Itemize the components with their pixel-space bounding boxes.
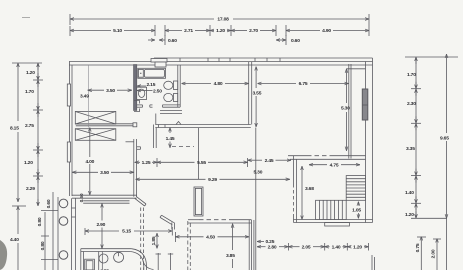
svg-text:5.10: 5.10: [113, 28, 122, 34]
svg-text:2.90: 2.90: [96, 222, 105, 228]
svg-text:1.70: 1.70: [25, 89, 34, 95]
dashed opening hall: [172, 146, 194, 148]
wall corridor top pair: [154, 114, 251, 149]
svg-text:5.30: 5.30: [254, 170, 263, 176]
wall top: [69, 58, 373, 65]
wall stub bottom right: [371, 255, 373, 270]
svg-text:2.80: 2.80: [268, 244, 277, 250]
stair flight vertical: [346, 176, 365, 201]
diagonal stub B: [160, 215, 175, 229]
ext line x88: [88, 65, 90, 128]
svg-text:8.15: 8.15: [10, 126, 19, 132]
dim 9.65 outer: [440, 54, 449, 270]
partition line bath2: [98, 252, 100, 270]
dim 6.75: [258, 81, 349, 87]
dim 1.85 rotated: [151, 233, 157, 249]
dim 5.55: [157, 158, 248, 167]
dim 3.50 upper: [80, 88, 132, 100]
svg-text:1.25: 1.25: [142, 160, 151, 166]
pillar box: [194, 187, 203, 216]
dim 5.10: [70, 25, 155, 36]
svg-text:9.65: 9.65: [440, 136, 449, 142]
dim 2.00: [431, 239, 442, 270]
toilet: [164, 81, 178, 90]
svg-text:0.25: 0.25: [266, 239, 275, 245]
window left 1: [67, 84, 70, 106]
wall porch left line: [57, 197, 59, 270]
stair flight horizontal: [316, 200, 347, 219]
dim 5.15: [85, 227, 172, 236]
svg-text:2.71: 2.71: [184, 28, 193, 34]
xbox 2: [75, 129, 116, 141]
column 1: [59, 199, 68, 208]
wall stair room left: [294, 156, 297, 223]
wall hall left pair: [126, 139, 141, 197]
svg-text:3.50: 3.50: [100, 170, 109, 176]
svg-text:0.80: 0.80: [37, 217, 43, 226]
door jamb bracket lower: [134, 109, 140, 112]
svg-text:3.35: 3.35: [406, 146, 415, 152]
svg-text:2.29: 2.29: [26, 186, 35, 192]
svg-text:3.55: 3.55: [253, 91, 262, 97]
svg-text:4.80: 4.80: [214, 81, 223, 87]
dim porch small chain: [37, 192, 85, 270]
dim 1.25: [135, 158, 157, 167]
top left dash: [22, 17, 30, 19]
window marker top wall bath: [151, 59, 167, 68]
dim 9.29 + 5.30 label: [136, 170, 290, 184]
svg-text:2.75: 2.75: [25, 123, 34, 129]
dim 3.50 lower: [72, 170, 134, 176]
svg-text:2.15: 2.15: [147, 82, 156, 88]
dim 8.15 / 4.40 outer: [10, 63, 42, 270]
diagonal stub A: [135, 196, 146, 206]
svg-text:2.05: 2.05: [302, 244, 311, 250]
window left 2: [67, 142, 70, 162]
dim 1.45: [166, 128, 175, 148]
svg-text:5.15: 5.15: [122, 229, 131, 235]
bidet: [164, 93, 178, 101]
svg-text:3.68: 3.68: [305, 186, 314, 192]
svg-text:4.50: 4.50: [206, 235, 215, 241]
dim 4.75: [309, 162, 360, 168]
dim 2.45: [248, 158, 291, 164]
wall bathroom bottom: [137, 105, 182, 114]
dim 4.90: [286, 25, 369, 36]
sink: [137, 87, 147, 99]
corridor wall joints: [158, 125, 160, 128]
dim 1.20: [210, 25, 231, 36]
dim 2.15: [137, 82, 156, 88]
column 2: [59, 217, 68, 226]
column 3: [59, 251, 68, 260]
dim 2.50: [137, 88, 162, 94]
svg-text:0.75: 0.75: [415, 243, 421, 252]
svg-text:5.55: 5.55: [197, 160, 206, 166]
dim 0.75: [415, 237, 426, 270]
dim bottom row 2.80 2.05 1.40 1.20: [257, 243, 369, 251]
svg-text:1.05: 1.05: [352, 208, 361, 214]
wall bathroom right: [178, 65, 180, 107]
svg-text:9.29: 9.29: [208, 177, 217, 183]
door dashed x142: [141, 208, 144, 270]
svg-text:2.70: 2.70: [249, 28, 258, 34]
tick marks bottom mid: [156, 253, 174, 270]
dim 2.71: [165, 25, 210, 36]
svg-text:1.20: 1.20: [353, 244, 362, 250]
svg-text:0.80: 0.80: [40, 241, 46, 250]
dim 1.05: [352, 202, 361, 219]
wall left room bottom: [72, 195, 137, 198]
wall lower room top: [83, 201, 129, 203]
wall mid vertical long x255: [249, 62, 256, 270]
svg-text:1.20: 1.20: [26, 70, 35, 76]
svg-text:0.60: 0.60: [168, 38, 177, 44]
beam bar: [76, 123, 137, 127]
dim 4.50: [175, 232, 249, 242]
door peak mark corridor wall: [176, 122, 181, 125]
svg-text:1.20: 1.20: [216, 28, 225, 34]
svg-text:1.45: 1.45: [166, 136, 175, 142]
dim 0.60 a: [148, 35, 177, 45]
dim 17.08: [70, 14, 369, 25]
dim 0.25: [257, 239, 275, 245]
shower box: [85, 259, 95, 270]
dim 0.60 b: [276, 35, 300, 45]
svg-text:2.30: 2.30: [407, 101, 416, 107]
wall right outer: [366, 58, 373, 223]
svg-text:4.90: 4.90: [322, 28, 331, 34]
wall bath2 top + curve: [81, 249, 147, 270]
wc2 bowl: [99, 254, 108, 263]
xbox 1: [75, 112, 116, 125]
svg-text:4.00: 4.00: [85, 159, 94, 165]
dim 3.68: [302, 166, 314, 220]
dim 2.70: [231, 25, 276, 36]
window right: [362, 89, 368, 120]
dim 2.90: [96, 204, 105, 270]
bidet2 bowl: [114, 252, 124, 262]
wall bathroom left thick: [134, 65, 137, 111]
svg-text:1.40: 1.40: [332, 244, 341, 250]
door leaf line: [198, 128, 200, 179]
wall stair room bottom: [294, 220, 373, 227]
svg-text:1.70: 1.70: [407, 72, 416, 78]
svg-text:6.75: 6.75: [299, 81, 308, 87]
wall lower mid room top dashed: [188, 220, 252, 223]
svg-text:2.50: 2.50: [153, 88, 162, 94]
svg-text:4.40: 4.40: [10, 237, 19, 243]
dim 4.80: [182, 81, 249, 87]
wall stair room top: [288, 156, 366, 160]
wall porch building: [72, 198, 76, 270]
dim left inner chain: [24, 63, 43, 206]
svg-text:2.00: 2.00: [431, 249, 437, 258]
svg-text:4.75: 4.75: [330, 162, 339, 168]
svg-text:3.85: 3.85: [226, 253, 235, 259]
svg-text:0.60: 0.60: [46, 199, 52, 208]
svg-text:2.45: 2.45: [265, 158, 274, 164]
door arc bath2: [143, 259, 154, 270]
svg-text:1.85: 1.85: [151, 236, 157, 245]
svg-text:0.60: 0.60: [291, 38, 300, 44]
door jamb bracket upper: [134, 101, 140, 104]
blob bottom left: [0, 240, 7, 270]
wall lower mid room left dashed: [188, 221, 191, 270]
dim 3.85: [226, 224, 235, 268]
wall big room right x349: [349, 64, 351, 159]
svg-text:1.20: 1.20: [24, 160, 33, 166]
wall bath2 left: [81, 249, 84, 270]
svg-text:1.40: 1.40: [405, 190, 414, 196]
wall x249 lower: [249, 220, 254, 270]
wall left upper: [70, 62, 73, 197]
bathtub: [138, 68, 166, 78]
svg-text:3.50: 3.50: [106, 88, 115, 94]
dim 5.30 vertical: [341, 69, 366, 151]
svg-text:3.49: 3.49: [80, 94, 89, 100]
svg-text:1.20: 1.20: [405, 212, 414, 218]
dim right inner chain 1.70 2.30 3.35 1.40 1.20: [405, 57, 458, 218]
svg-text:5.30: 5.30: [341, 106, 350, 112]
dim 3.55: [253, 67, 262, 128]
svg-text:17.08: 17.08: [217, 17, 229, 23]
dim 4.00: [85, 128, 94, 196]
